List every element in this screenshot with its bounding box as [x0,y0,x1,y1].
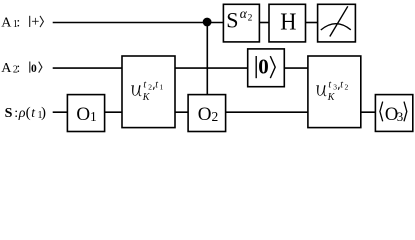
svg-text:2: 2 [148,83,152,92]
gate O1 [67,95,104,132]
svg-text:2: 2 [248,13,253,23]
svg-text:1: 1 [90,109,97,124]
svg-text:0: 0 [258,54,269,78]
svg-text:S: S [5,106,13,121]
svg-text:S: S [226,8,238,33]
gate U_K^{t2,t1} [122,56,175,128]
control vertical wire [206,23,208,97]
meter arc [321,24,351,30]
svg-text::: : [16,61,20,76]
control dot [203,18,212,27]
svg-text:O: O [76,104,90,125]
svg-text:2: 2 [212,109,219,124]
svg-text:K: K [142,92,151,103]
label S: rho(t1) [5,105,46,121]
svg-text:K: K [327,92,336,103]
gate H [269,4,306,42]
gate |0> (reset) [248,49,285,87]
svg-text:t: t [340,80,343,91]
svg-text:0: 0 [31,63,37,75]
svg-text:t: t [155,80,158,91]
label A2: |0> [1,61,42,76]
svg-text:α: α [240,6,248,21]
svg-text:A: A [1,61,12,76]
measurement meter [318,4,356,42]
gate U_K^{t3,t2} [308,56,361,128]
svg-text:2: 2 [345,83,349,92]
svg-text:A: A [1,15,12,30]
svg-text::: : [14,106,18,121]
svg-text:1: 1 [160,83,164,92]
wire A1 segment H to meter [306,22,319,24]
svg-text:3: 3 [333,83,337,92]
label A1: |+> [1,14,43,30]
script U [316,85,326,96]
wire A1 segment S-gate to H [259,22,269,24]
svg-text:t: t [328,80,331,91]
gate S^{alpha_2} [223,4,259,42]
svg-text:t: t [143,80,146,91]
svg-text:(: ( [26,105,31,121]
svg-text::: : [16,15,20,30]
svg-text:+: + [31,14,39,30]
svg-text:O: O [198,104,212,125]
wire S (bottom) [53,111,412,113]
gate <O3> expectation [375,95,412,132]
wire A2 (middle) [53,67,360,69]
wire A1 (top), label to S-gate [53,22,224,24]
svg-text:H: H [280,10,296,36]
gate O2 [188,95,226,132]
svg-text:ρ: ρ [18,106,26,121]
svg-text:): ) [41,105,46,121]
meter needle [330,6,348,36]
script U [131,85,141,96]
svg-text:3: 3 [397,109,404,124]
